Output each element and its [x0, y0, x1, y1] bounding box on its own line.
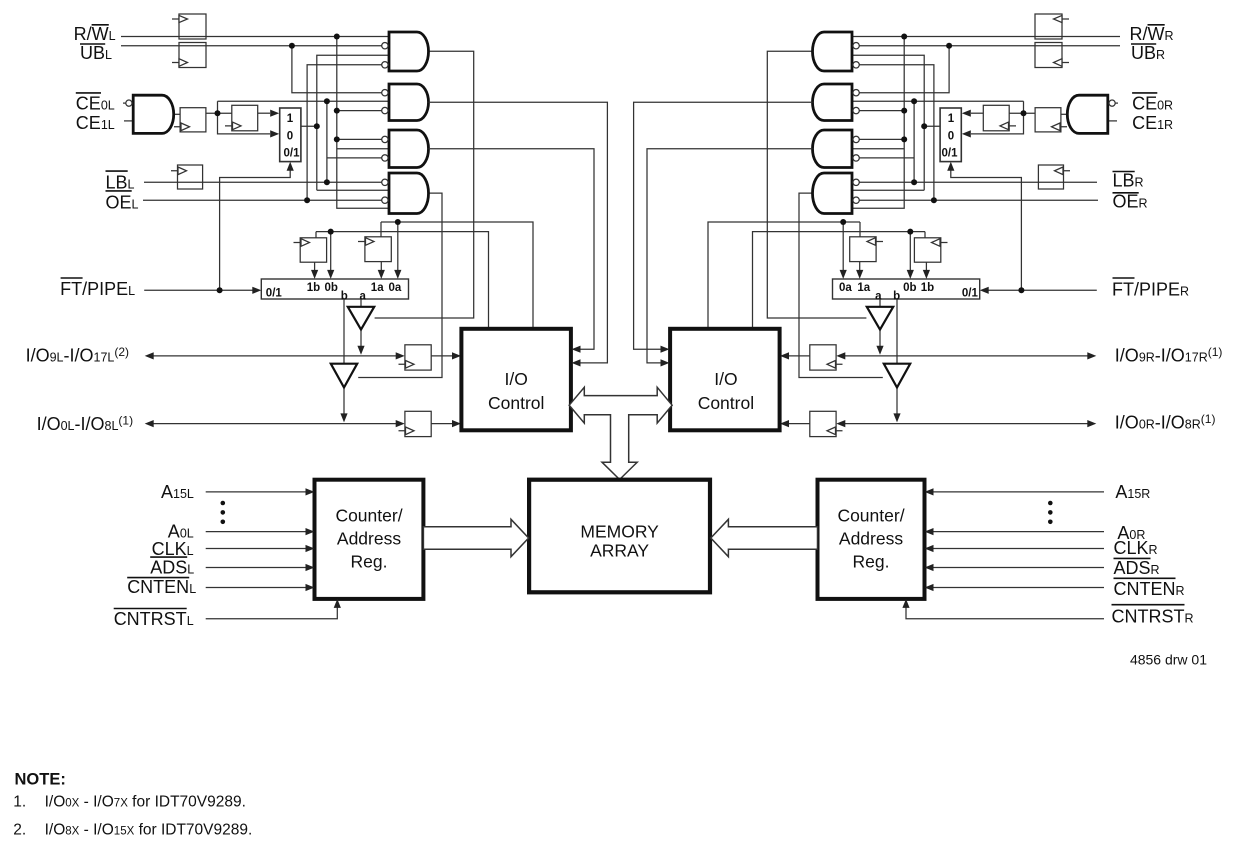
- svg-text:I/O: I/O: [714, 369, 737, 389]
- wire ADSR: [933, 567, 1105, 569]
- svg-text:0/1: 0/1: [284, 148, 301, 160]
- svg-text:MEMORY: MEMORY: [580, 522, 659, 542]
- wire CLKR: [933, 548, 1105, 550]
- svg-text:FT/PIPEL: FT/PIPEL: [60, 279, 135, 299]
- wire CNTENR: [933, 587, 1105, 589]
- svg-text:Reg.: Reg.: [853, 552, 890, 572]
- svg-text:ADSR: ADSR: [1114, 558, 1160, 578]
- svg-text:0/1: 0/1: [266, 288, 283, 300]
- svg-text:CE1R: CE1R: [1132, 113, 1173, 133]
- wire right gate2 output to right IOC upper arrow: [634, 102, 813, 349]
- svg-text:Address: Address: [337, 529, 401, 549]
- svg-text:CNTENR: CNTENR: [1114, 579, 1185, 599]
- svg-text:A15L: A15L: [161, 482, 194, 502]
- svg-text:1a: 1a: [371, 282, 384, 294]
- svg-text:0a: 0a: [389, 282, 402, 294]
- svg-text:UBL: UBL: [80, 43, 112, 63]
- svg-text:Counter/: Counter/: [335, 506, 402, 526]
- svg-text:CLKL: CLKL: [152, 539, 194, 559]
- svg-text:0/1: 0/1: [962, 288, 979, 300]
- ellipsis dots R: [1048, 501, 1053, 524]
- svg-text:Reg.: Reg.: [351, 552, 388, 572]
- svg-text:OER: OER: [1113, 192, 1148, 212]
- svg-text:0/1: 0/1: [942, 148, 959, 160]
- svg-text:b: b: [893, 291, 900, 303]
- svg-text:CNTENL: CNTENL: [127, 577, 196, 597]
- wire left gate2 output to left IOC lower arrow: [429, 102, 608, 363]
- svg-text:I/O0R-I/O8R(1): I/O0R-I/O8R(1): [1115, 412, 1216, 433]
- svg-text:1: 1: [287, 113, 294, 125]
- ellipsis dots L: [221, 501, 226, 524]
- svg-text:Control: Control: [698, 393, 754, 413]
- svg-text:0b: 0b: [903, 282, 916, 294]
- svg-text:1a: 1a: [857, 282, 870, 294]
- svg-text:Counter/: Counter/: [837, 506, 904, 526]
- wire A15R: [933, 491, 1105, 493]
- svg-text:0a: 0a: [839, 282, 852, 294]
- svg-text:CNTRSTR: CNTRSTR: [1112, 607, 1194, 627]
- svg-text:LBL: LBL: [106, 172, 135, 192]
- svg-text:FT/PIPER: FT/PIPER: [1112, 280, 1189, 300]
- svg-text:ARRAY: ARRAY: [590, 540, 649, 560]
- svg-text:I/O9R-I/O17R(1): I/O9R-I/O17R(1): [1115, 345, 1223, 366]
- wire CNTRSTL: [206, 606, 338, 619]
- svg-text:I/O: I/O: [505, 369, 528, 389]
- svg-text:CE0R: CE0R: [1132, 94, 1173, 114]
- hollow arrow IOC-to-IOC with branch to memory array: [569, 387, 672, 479]
- svg-text:a: a: [359, 291, 366, 303]
- wire CLKL: [206, 548, 307, 550]
- svg-text:Address: Address: [839, 529, 903, 549]
- wire CNTENL: [206, 587, 307, 589]
- wire A15L: [206, 491, 307, 493]
- svg-text:CE0L: CE0L: [76, 94, 115, 114]
- NOTE block: [13, 771, 252, 839]
- svg-text:CNTRSTL: CNTRSTL: [114, 609, 194, 629]
- wire right gate3 output to right IOC lower arrow: [647, 149, 813, 363]
- svg-text:0b: 0b: [324, 282, 337, 294]
- counter/address reg box R: [818, 480, 925, 599]
- wire CNTRSTR: [906, 606, 1104, 619]
- svg-text:I/O0L-I/O8L(1): I/O0L-I/O8L(1): [37, 414, 134, 435]
- wire A0R: [933, 531, 1105, 533]
- text layer: [26, 24, 1223, 629]
- svg-text:b: b: [341, 291, 348, 303]
- svg-text:0: 0: [948, 130, 954, 142]
- svg-text:R/WR: R/WR: [1130, 24, 1174, 44]
- memory array box: [529, 480, 710, 593]
- wire A0L: [206, 531, 307, 533]
- svg-text:NOTE:: NOTE:: [15, 771, 66, 789]
- counter/address reg box L: [315, 480, 424, 599]
- svg-text:ADSL: ADSL: [150, 558, 194, 578]
- svg-text:1b: 1b: [921, 282, 934, 294]
- svg-text:2.I/O8X - I/O15X for IDT70V928: 2.I/O8X - I/O15X for IDT70V9289.: [13, 822, 252, 839]
- svg-text:4856 drw 01: 4856 drw 01: [1130, 652, 1207, 668]
- svg-text:CE1L: CE1L: [76, 113, 115, 133]
- hollow arrow counterL to memory: [423, 519, 528, 556]
- wire ADSL: [206, 567, 307, 569]
- svg-text:a: a: [875, 291, 882, 303]
- svg-text:0: 0: [287, 130, 293, 142]
- svg-text:OEL: OEL: [106, 193, 139, 213]
- wire left gate3 output to left IOC upper arrow: [429, 149, 595, 349]
- svg-text:UBR: UBR: [1131, 43, 1165, 63]
- svg-text:A15R: A15R: [1115, 482, 1150, 502]
- svg-text:R/WL: R/WL: [74, 24, 116, 44]
- svg-text:Control: Control: [488, 393, 544, 413]
- svg-text:I/O9L-I/O17L(2): I/O9L-I/O17L(2): [26, 345, 129, 366]
- svg-text:LBR: LBR: [1113, 171, 1144, 191]
- hollow arrow counterR to memory: [711, 519, 818, 556]
- svg-text:1: 1: [948, 113, 955, 125]
- svg-text:1.I/O0X - I/O7X for IDT70V9289: 1.I/O0X - I/O7X for IDT70V9289.: [13, 794, 246, 811]
- svg-text:CLKR: CLKR: [1114, 538, 1158, 558]
- svg-text:1b: 1b: [307, 282, 320, 294]
